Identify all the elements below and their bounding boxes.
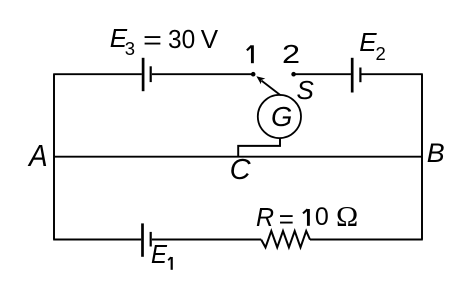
- label E1: [151, 241, 167, 267]
- battery E3 long plate: [142, 58, 145, 91]
- label S: [297, 77, 314, 103]
- wire left vertical A-branch: [53, 74, 55, 239]
- battery E1 short plate: [150, 232, 152, 247]
- resistor R zigzag: [261, 231, 310, 247]
- wire point 2 to E2: [294, 73, 351, 75]
- wire G bottom to jog down to node C: [238, 138, 280, 157]
- label E3 = 30 V: [110, 25, 127, 51]
- galvanometer G circle: [258, 95, 301, 138]
- wire top-left segment to E3: [53, 73, 142, 75]
- label G: [271, 103, 292, 131]
- switch arm wire from G toward point 1: [262, 81, 281, 96]
- switch arm arrowhead: [256, 76, 265, 84]
- wire E1 to resistor R: [152, 239, 261, 241]
- switch contact dot 1: [251, 72, 256, 77]
- battery E2 long plate: [351, 58, 354, 93]
- label R = 10 ohm: [256, 204, 274, 230]
- label B: [427, 140, 445, 167]
- label 1 of 10 (drawn digit, footless): [303, 209, 308, 226]
- label 2: [282, 41, 300, 67]
- battery E2 short plate: [359, 68, 361, 83]
- wire resistor to bottom-right corner: [310, 239, 423, 241]
- label C: [230, 156, 251, 185]
- subscript 1 of E1 (drawn digit): [168, 257, 172, 270]
- label 1 (drawn digit, footless): [247, 45, 253, 63]
- wire right vertical B-branch: [421, 74, 423, 239]
- label A: [29, 141, 48, 171]
- switch contact dot 2: [291, 72, 296, 77]
- battery E1 long plate: [141, 223, 144, 256]
- battery E3 short plate: [150, 66, 152, 82]
- wire E3 to switch point 1: [152, 73, 253, 75]
- wire bottom-left segment to E1: [53, 239, 141, 241]
- label E2: [359, 29, 376, 55]
- wire middle A-B: [54, 156, 422, 158]
- wire E2 to top-right corner: [362, 73, 423, 75]
